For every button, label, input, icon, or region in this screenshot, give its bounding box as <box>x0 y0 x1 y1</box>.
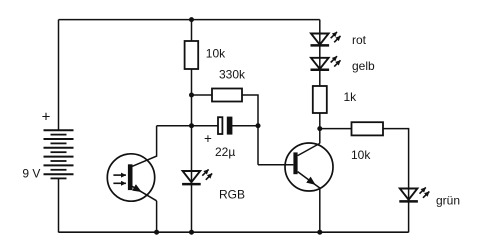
transistor Q2 emitter with arrow <box>298 172 320 188</box>
resistor R4 10k horizontal <box>352 122 384 135</box>
node cap row / R1 branch <box>189 123 194 128</box>
capacitor C1 22u left plate <box>218 117 222 134</box>
LED D1 rot triangle <box>311 34 329 45</box>
wire Q2 base <box>258 164 293 166</box>
wire cap row right <box>232 125 258 127</box>
LED D1 rot cathode bar <box>311 44 330 47</box>
phototransistor Q1 collector <box>132 126 157 167</box>
LED D2 emission arrow 2 <box>334 60 340 66</box>
LED D3 RGB cathode bar <box>182 183 201 186</box>
wire 330k left stub <box>192 94 214 96</box>
wire cap row left (from Q1 collector to cap) <box>157 125 219 127</box>
node bottom / Q2 emitter <box>317 230 322 235</box>
phototransistor light arrow 2 <box>113 182 126 184</box>
phototransistor light arrow 1 <box>113 174 126 176</box>
transistor Q2 collector diagonal <box>298 143 320 155</box>
LED D4 gruen cathode bar <box>399 200 418 203</box>
LED D2 emission arrow 1 <box>331 56 337 62</box>
node bottom / RGB branch <box>189 230 194 235</box>
svg-text:10k: 10k <box>351 148 371 162</box>
resistor R1 10k vertical <box>185 41 199 69</box>
node junction dots <box>154 17 322 235</box>
LED D3 emission arrow 1 <box>202 169 208 175</box>
svg-text:rot: rot <box>352 33 367 47</box>
LED D3 emission arrow 2 <box>206 174 212 180</box>
svg-text:22µ: 22µ <box>215 145 235 159</box>
resistor R3 1k vertical <box>313 86 327 113</box>
wire bottom rail <box>59 231 409 233</box>
phototransistor Q1 emitter down wire <box>156 201 158 233</box>
svg-text:10k: 10k <box>206 46 226 60</box>
svg-text:330k: 330k <box>219 68 246 82</box>
LED D4 gruen triangle <box>400 189 418 200</box>
wire 10k R4 row left stub <box>320 128 352 130</box>
LED D2 gelb triangle <box>311 58 329 69</box>
node cap row / base branch <box>256 123 261 128</box>
svg-text:RGB: RGB <box>219 188 245 202</box>
svg-text:9 V: 9 V <box>22 166 40 180</box>
wire top rail <box>59 19 320 21</box>
wire vertical net x=191.5 (10k / RGB branch) <box>191 20 193 233</box>
phototransistor Q1 circle <box>107 154 154 201</box>
LED D4 emission arrow 2 <box>423 192 429 198</box>
svg-text:grün: grün <box>436 194 460 208</box>
capacitor C1 right plate <box>227 117 233 135</box>
node 1k / R4 / Q2 collector <box>317 126 322 131</box>
wire 330k right to corner down to cap node <box>241 95 258 165</box>
svg-text:+: + <box>204 131 212 146</box>
LED D1 emission arrow 1 <box>331 32 337 38</box>
transistor Q2 circle <box>285 143 333 191</box>
svg-text:1k: 1k <box>344 90 358 104</box>
node top rail / R1 <box>189 17 194 22</box>
wire left rail lower <box>58 178 60 232</box>
phototransistor Q1 base bar <box>128 164 133 190</box>
transistor Q2 base bar <box>293 152 297 174</box>
wire left rail upper <box>58 20 60 130</box>
battery B1 9V plates <box>44 130 74 178</box>
phototransistor Q1 emitter with arrow <box>132 186 156 200</box>
svg-text:gelb: gelb <box>352 59 375 73</box>
wire 10k R4 row right + corner down to green LED <box>383 129 409 233</box>
LED D1 emission arrow 2 <box>334 36 340 42</box>
node R1 / 330k <box>189 93 194 98</box>
LED D2 gelb cathode bar <box>311 68 330 71</box>
resistor R2 330k horizontal <box>212 89 242 102</box>
wire right vertical x=319.8 (LEDs, 1k, Q2 collector) <box>319 20 321 144</box>
svg-text:+: + <box>42 109 51 126</box>
wire Q2 emitter down <box>319 188 321 232</box>
node bottom / Q1 emitter <box>154 230 159 235</box>
LED D4 emission arrow 1 <box>420 187 426 193</box>
LED D3 RGB triangle <box>183 171 201 182</box>
